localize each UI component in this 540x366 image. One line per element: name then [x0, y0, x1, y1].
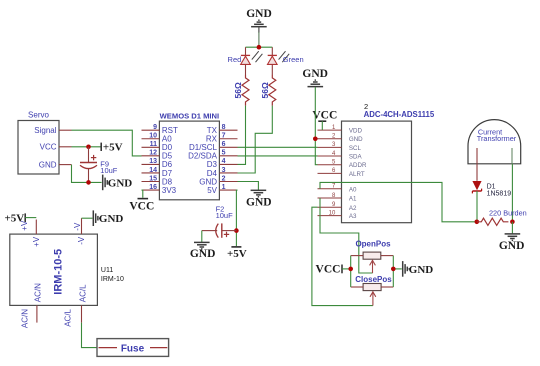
- diode D1 1N5819: [472, 181, 511, 222]
- pin 1 5V: [207, 184, 237, 195]
- pin 13 D6: [142, 158, 173, 169]
- svg-text:AC/L: AC/L: [64, 308, 73, 326]
- pin 7 RX: [206, 133, 238, 144]
- svg-text:GND: GND: [349, 136, 363, 143]
- svg-text:VDD: VDD: [349, 128, 363, 135]
- svg-text:VCC: VCC: [312, 109, 337, 121]
- wire CT right leg to burden: [511, 164, 513, 222]
- svg-text:VCC: VCC: [316, 264, 341, 276]
- power flag +5V (servo): [101, 142, 122, 154]
- svg-text:Red: Red: [228, 55, 242, 64]
- fuse F1: [97, 339, 169, 357]
- pin 3 D4: [207, 167, 238, 178]
- svg-text:-V: -V: [73, 222, 82, 231]
- svg-text:AC/L: AC/L: [79, 284, 88, 302]
- wire 3V3 to VCC flag: [142, 190, 143, 198]
- power flag VCC (below WEMOS): [129, 199, 154, 213]
- svg-text:ALRT: ALRT: [349, 171, 365, 178]
- pin 5 ADDR: [318, 160, 367, 170]
- wire CT left leg to D1: [476, 164, 478, 181]
- wire right rail (GND side): [392, 256, 394, 287]
- svg-text:VCC: VCC: [129, 200, 154, 212]
- wire GND tap to pin2: [315, 138, 317, 140]
- node burden left junction: [475, 220, 480, 225]
- transformer T1 Current Transformer: [468, 120, 521, 164]
- svg-text:ADC-4CH-ADS1115: ADC-4CH-ADS1115: [364, 110, 435, 119]
- switch S2 ClosePos: [351, 275, 394, 306]
- svg-text:Transformer: Transformer: [477, 134, 517, 143]
- svg-text:WEMOS D1 MINI: WEMOS D1 MINI: [160, 112, 220, 121]
- svg-text:16: 16: [149, 184, 157, 191]
- wire AC/L to fuse: [82, 323, 98, 348]
- svg-text:AC/N: AC/N: [34, 283, 43, 302]
- svg-text:Signal: Signal: [34, 126, 56, 135]
- pin Servo VCC: [59, 146, 72, 148]
- ground GND5 (above ADC): [302, 68, 328, 87]
- svg-text:SDA: SDA: [349, 153, 363, 160]
- power flag +5V (IRM): [4, 212, 36, 224]
- wire left rail (VCC side): [350, 256, 352, 287]
- svg-text:12: 12: [149, 150, 157, 157]
- svg-text:Fuse: Fuse: [121, 344, 145, 355]
- power flag VCC (switches): [316, 264, 351, 276]
- svg-text:-V: -V: [77, 236, 86, 245]
- wire ADC GND/ADDR to ground: [315, 87, 317, 164]
- svg-text:10uF: 10uF: [216, 211, 234, 220]
- resistor R burden 220: [477, 208, 527, 225]
- svg-text:IRM-10: IRM-10: [101, 276, 124, 283]
- wire Servo Signal to WEMOS D5: [72, 130, 142, 156]
- svg-text:3: 3: [222, 167, 226, 174]
- pin 10 A3: [318, 210, 358, 220]
- svg-text:4: 4: [222, 158, 226, 165]
- wire green LED to D4: [238, 106, 273, 173]
- LED green: [268, 47, 304, 75]
- pin 8 A1: [318, 193, 358, 203]
- svg-text:3V3: 3V3: [162, 186, 177, 195]
- svg-text:1N5819: 1N5819: [487, 191, 512, 198]
- svg-text:GND: GND: [246, 8, 272, 20]
- svg-text:D1: D1: [487, 183, 496, 190]
- pin 12 D5: [142, 150, 173, 161]
- pin 4 D3: [207, 158, 238, 169]
- pin 1 VDD: [318, 125, 363, 135]
- wire A2 to ClosePos: [312, 207, 373, 305]
- node GND rail junction: [391, 267, 396, 272]
- pin 6 D1/SCL: [189, 141, 238, 152]
- svg-text:+V: +V: [32, 236, 41, 247]
- ground GND8 (IRM -V): [82, 210, 124, 226]
- capacitor F2 10uF: [202, 205, 237, 238]
- pin 9 A2: [318, 202, 358, 212]
- resistor R red 56 ohm: [233, 75, 249, 106]
- svg-text:A2: A2: [349, 205, 357, 212]
- power module U11 IRM-10-5: [10, 218, 124, 328]
- pin 14 D7: [142, 167, 173, 178]
- ground GND6 (switches): [393, 261, 433, 277]
- svg-text:Green: Green: [283, 55, 304, 64]
- svg-text:+5V: +5V: [103, 142, 123, 154]
- svg-text:11: 11: [150, 141, 158, 148]
- svg-text:SCL: SCL: [349, 145, 362, 152]
- connector J1 Servo: [18, 111, 72, 175]
- svg-text:ADDR: ADDR: [349, 162, 367, 169]
- pin 7 A0: [318, 184, 358, 194]
- node 5V junction at F2: [234, 228, 239, 233]
- svg-text:+5V: +5V: [4, 212, 24, 224]
- svg-text:IRM-10-5: IRM-10-5: [53, 249, 65, 295]
- pin 8 TX: [207, 124, 238, 135]
- pin 16 3V3: [142, 184, 177, 195]
- power flag VCC (ADC VDD): [312, 109, 337, 130]
- node burden right junction: [510, 220, 515, 225]
- svg-text:2: 2: [222, 175, 226, 182]
- svg-text:15: 15: [149, 175, 157, 182]
- svg-text:GND: GND: [190, 248, 216, 260]
- ground GND3 (WEMOS pin2): [246, 190, 272, 208]
- svg-text:VCC: VCC: [40, 143, 57, 152]
- svg-text:56Ω: 56Ω: [233, 82, 243, 98]
- svg-text:GND: GND: [409, 264, 434, 276]
- svg-text:6: 6: [222, 141, 226, 148]
- svg-text:13: 13: [149, 158, 157, 165]
- svg-text:10: 10: [329, 210, 336, 216]
- svg-text:AC/N: AC/N: [21, 309, 30, 328]
- svg-text:56Ω: 56Ω: [260, 82, 270, 98]
- svg-text:14: 14: [149, 167, 157, 174]
- wire LED top rail: [246, 46, 273, 48]
- wire Servo VCC to +5V: [72, 146, 101, 148]
- wire A1 to OpenPos: [320, 198, 373, 273]
- node LED rail junction: [257, 45, 262, 50]
- svg-text:U11: U11: [101, 267, 113, 274]
- ground GND4 (below F2): [190, 242, 216, 260]
- node servo GND junction: [86, 180, 91, 185]
- pin 11 D0: [142, 141, 173, 152]
- svg-text:OpenPos: OpenPos: [355, 240, 391, 249]
- LED red: [228, 47, 263, 75]
- pin 9 RST: [142, 124, 179, 135]
- svg-text:ClosePos: ClosePos: [355, 275, 392, 284]
- svg-text:GND: GND: [108, 177, 133, 189]
- svg-text:GND: GND: [499, 240, 525, 252]
- pin 4 SDA: [318, 151, 363, 161]
- ground GND7 (burden): [499, 222, 525, 252]
- pin AC/L: [64, 284, 88, 327]
- svg-text:A3: A3: [349, 213, 357, 220]
- svg-text:A1: A1: [349, 196, 357, 203]
- wire Servo GND down to GND rail: [72, 165, 102, 183]
- wire WEMOS GND pin to ground: [238, 182, 259, 191]
- pin 2 GND: [318, 134, 364, 144]
- pin 15 D8: [142, 175, 173, 186]
- svg-text:A0: A0: [349, 186, 357, 193]
- capacitor F9 10uF: [80, 147, 118, 183]
- ground GND1 (top, above LEDs): [246, 8, 272, 33]
- svg-text:GND: GND: [246, 196, 272, 208]
- node servo VCC junction: [86, 145, 91, 150]
- svg-text:+5V: +5V: [227, 248, 247, 260]
- wire SDA (WEMOS D2 to ADC SDA): [238, 155, 318, 157]
- pin -V: [73, 218, 86, 245]
- ground GND2 (right of F9): [103, 175, 133, 191]
- pin +V: [20, 220, 41, 247]
- wire SCL (WEMOS D1 to ADC SCL): [238, 146, 318, 148]
- svg-text:220 Burden: 220 Burden: [489, 208, 527, 217]
- svg-text:GND: GND: [99, 213, 124, 225]
- pin AC/N: [21, 283, 43, 328]
- pin Servo GND: [59, 164, 72, 166]
- pin Servo Signal: [59, 129, 72, 131]
- switch S1 OpenPos: [351, 240, 394, 273]
- pin 10 A0: [142, 133, 173, 144]
- power flag +5V (below F2): [227, 247, 247, 260]
- svg-text:8: 8: [222, 124, 226, 131]
- node VCC rail junction: [348, 267, 353, 272]
- resistor R green 56 ohm: [260, 75, 276, 106]
- wire GND1 stem to LED rail: [258, 32, 260, 47]
- pin 6 ALRT: [318, 168, 365, 178]
- module U2 ADC-4CH-ADS1115: [318, 102, 435, 223]
- pin 3 SCL: [318, 142, 362, 152]
- svg-text:7: 7: [222, 133, 226, 140]
- svg-text:GND: GND: [302, 68, 328, 80]
- pin 5 D2/SDA: [188, 150, 237, 161]
- svg-text:Servo: Servo: [28, 111, 49, 120]
- wire red LED to D3: [238, 106, 246, 165]
- svg-text:10uF: 10uF: [100, 166, 118, 175]
- node ADC GND junction: [313, 137, 318, 142]
- module U1 WEMOS D1 MINI: [142, 112, 238, 200]
- svg-text:5: 5: [222, 150, 226, 157]
- svg-text:5V: 5V: [207, 186, 217, 195]
- wire A0 to CT burden: [320, 182, 477, 221]
- svg-text:9: 9: [153, 124, 157, 131]
- wire F2 minus to ground: [201, 231, 203, 242]
- svg-text:10: 10: [149, 133, 157, 140]
- pin 2 GND: [199, 175, 237, 186]
- svg-text:1: 1: [222, 184, 226, 191]
- svg-text:GND: GND: [39, 160, 57, 169]
- wire WEMOS 5V down: [236, 190, 237, 246]
